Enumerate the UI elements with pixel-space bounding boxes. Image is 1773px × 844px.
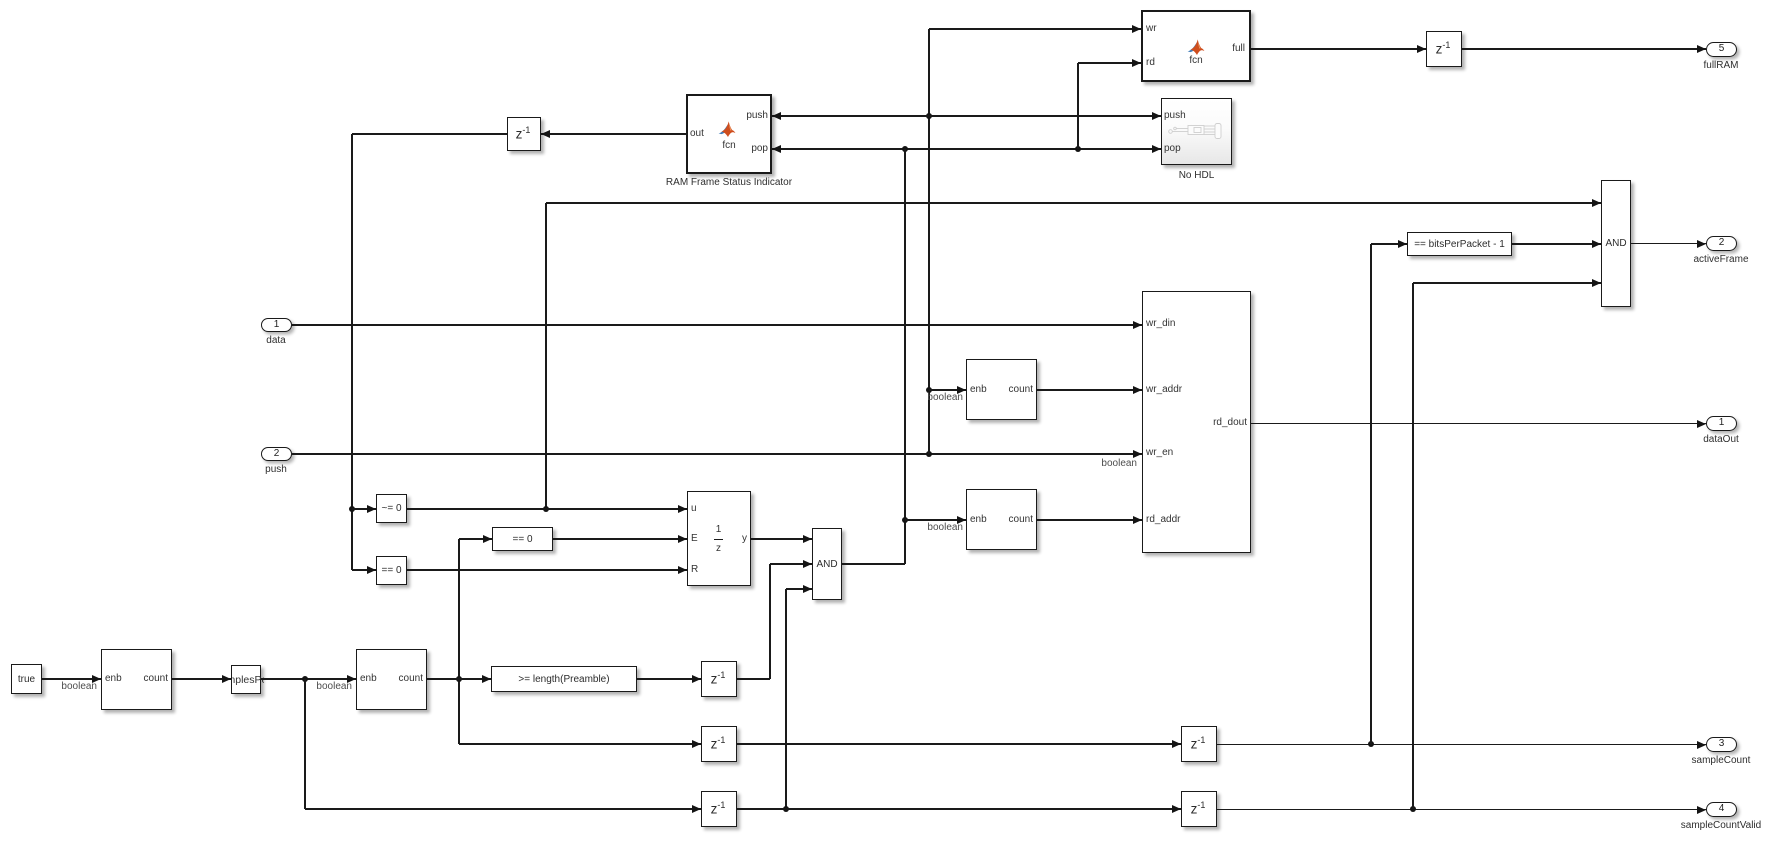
compare block U9 == 0 (lower) [376,556,407,585]
MATLAB Function block U2 RAM Frame Status Indicator [686,94,772,174]
wire riser x770 [769,564,770,679]
caption RAM Frame Status Indicator [659,176,799,189]
outport 2 activeFrame [1706,236,1737,251]
pin label wr of U1 [1146,23,1157,35]
pin label rd of U1 [1146,57,1155,69]
label fcn of U1 [1166,55,1226,67]
icon of No HDL [1168,123,1225,139]
MATLAB Function block U1 (full flag fcn) [1141,10,1251,82]
wire push inport to wr_en [292,453,1142,454]
junction push/wr_en riser [926,451,933,458]
wire to wr counter enb [929,389,966,390]
pin label count of U15 [399,673,423,685]
junction pop net x1078 [1075,146,1082,153]
wire rd into U1 [1078,62,1141,63]
pin label wr_en of U3 [1146,447,1173,459]
delay block Z6 (sampleCount z^-1) [1181,726,1217,762]
compare block U8 ~= 0 [376,494,407,523]
subsystem No HDL [1161,98,1232,165]
pin label rd_dout of U3 [1213,417,1247,429]
logic block U12 AND (pop control) [812,528,842,600]
delay block Z2 (fullRAM z^-1) [1426,31,1462,67]
junction push net at push line [926,113,933,120]
wire AND top input 3 [1413,282,1601,283]
wire U11 y to AND mid [751,538,812,539]
inport 2 push [261,447,292,461]
wire into Z4 [459,743,701,744]
wire eq0 lower out to R [407,569,687,570]
junction push net at wr counter [926,387,933,394]
wire pop line between U2 and No HDL [772,148,1161,149]
fraction 1/z of U11 [713,524,724,536]
junction x905 at rd counter [902,517,909,524]
wire into eq0 mid [459,538,492,539]
compare block U6 == bitsPerPacket - 1 [1407,232,1512,256]
junction x352 at neq0 [349,506,356,513]
junction x786 at Z5 output [783,806,790,813]
pin label enb of U13 [105,673,122,685]
pin label push of U2 [746,110,768,122]
constant block true [11,664,42,694]
wire U2 out to Z1 [541,133,686,134]
delay block Z5 [701,791,737,827]
pin label R of U11 [691,564,698,576]
junction x305 [302,676,309,683]
wire AND top input 1 (long from x546) [546,202,1601,203]
compare block U14 samplesPerFrame (clipped text) [231,665,261,694]
wire Z7 out to outport 4 [1217,809,1706,810]
pin label enb of U4 [970,384,987,396]
wire Z3 out to riser x770 [737,678,770,679]
wire true to counter1 [42,678,101,679]
delay block Z4 [701,726,737,762]
wire riser x546 [545,203,546,509]
wire >= length to Z3 [637,678,701,679]
wire rd counter count to rd_addr [1037,519,1142,520]
wire == bitsPerPacket to AND top [1512,243,1601,244]
delay block Z7 (sampleCountValid z^-1) [1181,791,1217,827]
RAM block U3 (dual port RAM) [1142,291,1251,553]
label boolean (wr_en) [1097,458,1137,470]
pin label enb of U15 [360,673,377,685]
logic block U7 AND (activeFrame) [1601,180,1631,307]
wire samplesP to counter2 [261,678,356,679]
enabled resettable delay block U11 (1/z) [687,491,751,586]
wire counter1 to samplesP [172,678,231,679]
wire into == bitsPerPacket [1371,243,1407,244]
wire neq0 out to u [407,508,687,509]
wire into eq0 lower [352,569,376,570]
pin label enb of U5 [970,514,987,526]
wire riser x929 push net [928,29,929,454]
wire riser x1413 [1412,283,1413,809]
outport 3 sampleCount [1706,737,1737,752]
counter block U5 (read address counter) [966,489,1037,550]
wire Z6 out to outport 3 [1217,744,1706,745]
wire riser x305 [304,679,305,809]
wire riser x459 [458,539,459,744]
wire wr into U1 [929,28,1141,29]
wire AND mid out and riser x905 [842,563,905,564]
delay block Z1 (top left z^-1) [507,117,541,151]
counter block U13 (sample counter 1) [101,649,172,710]
wire data inport to wr_din [292,324,1142,325]
pin label y of U11 [742,533,747,545]
compare block U16 >= length(Preamble) [491,666,637,692]
pin label count of U5 [1009,514,1033,526]
wire Z5 out to Z7 [737,808,1181,809]
pin label wr_addr of U3 [1146,384,1182,396]
wire rd_dout to outport 1 [1251,423,1706,424]
wire to rd counter enb [905,519,966,520]
outport 5 fullRAM [1706,42,1737,57]
wire eq0 mid out to E [553,538,687,539]
outport 4 sampleCountValid [1706,802,1737,817]
counter block U4 (write address counter) [966,359,1037,420]
junction x459 at counter2 output [456,676,463,683]
pin label E of U11 [691,533,698,545]
junction x1413 [1410,806,1417,813]
wire AND mid input 3 [786,588,812,589]
junction pop net x905 [902,146,909,153]
wire AND top output to outport 2 [1631,243,1706,244]
pin label out of U2 [690,128,704,140]
inport 1 data [261,318,292,332]
pin label wr_din of U3 [1146,318,1175,330]
wire Z2 to outport 5 [1462,48,1706,49]
wire AND mid input 2 [770,563,812,564]
wire Z4 out to Z6 [737,743,1181,744]
label boolean (rd counter enb) [923,522,963,534]
outport 1 dataOut [1706,416,1737,431]
counter block U15 (sample counter 2) [356,649,427,710]
wire riser x1371 [1370,244,1371,744]
wire wr counter count to wr_addr [1037,389,1142,390]
label boolean (true wire) [57,681,97,693]
pin label pop of U2 [751,143,768,155]
pin label rd_addr of U3 [1146,514,1180,526]
wire Z1 out going left [352,133,507,134]
wire counter2 to >= length [427,678,491,679]
junction x1371 [1368,741,1375,748]
wire into Z5 [305,808,701,809]
junction x546 on neq0 output [543,506,550,513]
pin label count of U13 [144,673,168,685]
delay block Z3 [701,661,737,697]
pin label push of No HDL [1164,110,1186,122]
pin label u of U11 [691,503,697,515]
label fcn of U2 [699,140,759,152]
wire push line between U2 and No HDL [772,115,1161,116]
MATLAB logo of U2 [718,120,737,139]
pin label count of U4 [1009,384,1033,396]
compare block U10 == 0 (middle) [492,527,553,551]
wire U1 full to Z2 [1251,48,1426,49]
label boolean (wr counter enb) [923,392,963,404]
wire riser x352 [351,134,352,570]
pin label full of U1 [1232,43,1245,55]
label boolean (counter2 enb) [312,681,352,693]
wire riser x786 [785,589,786,809]
MATLAB logo of U1 [1187,38,1206,57]
wire riser x1078 rd [1077,63,1078,149]
caption No HDL [1161,169,1232,182]
wire into neq0 [352,508,376,509]
pin label pop of No HDL [1164,143,1181,155]
